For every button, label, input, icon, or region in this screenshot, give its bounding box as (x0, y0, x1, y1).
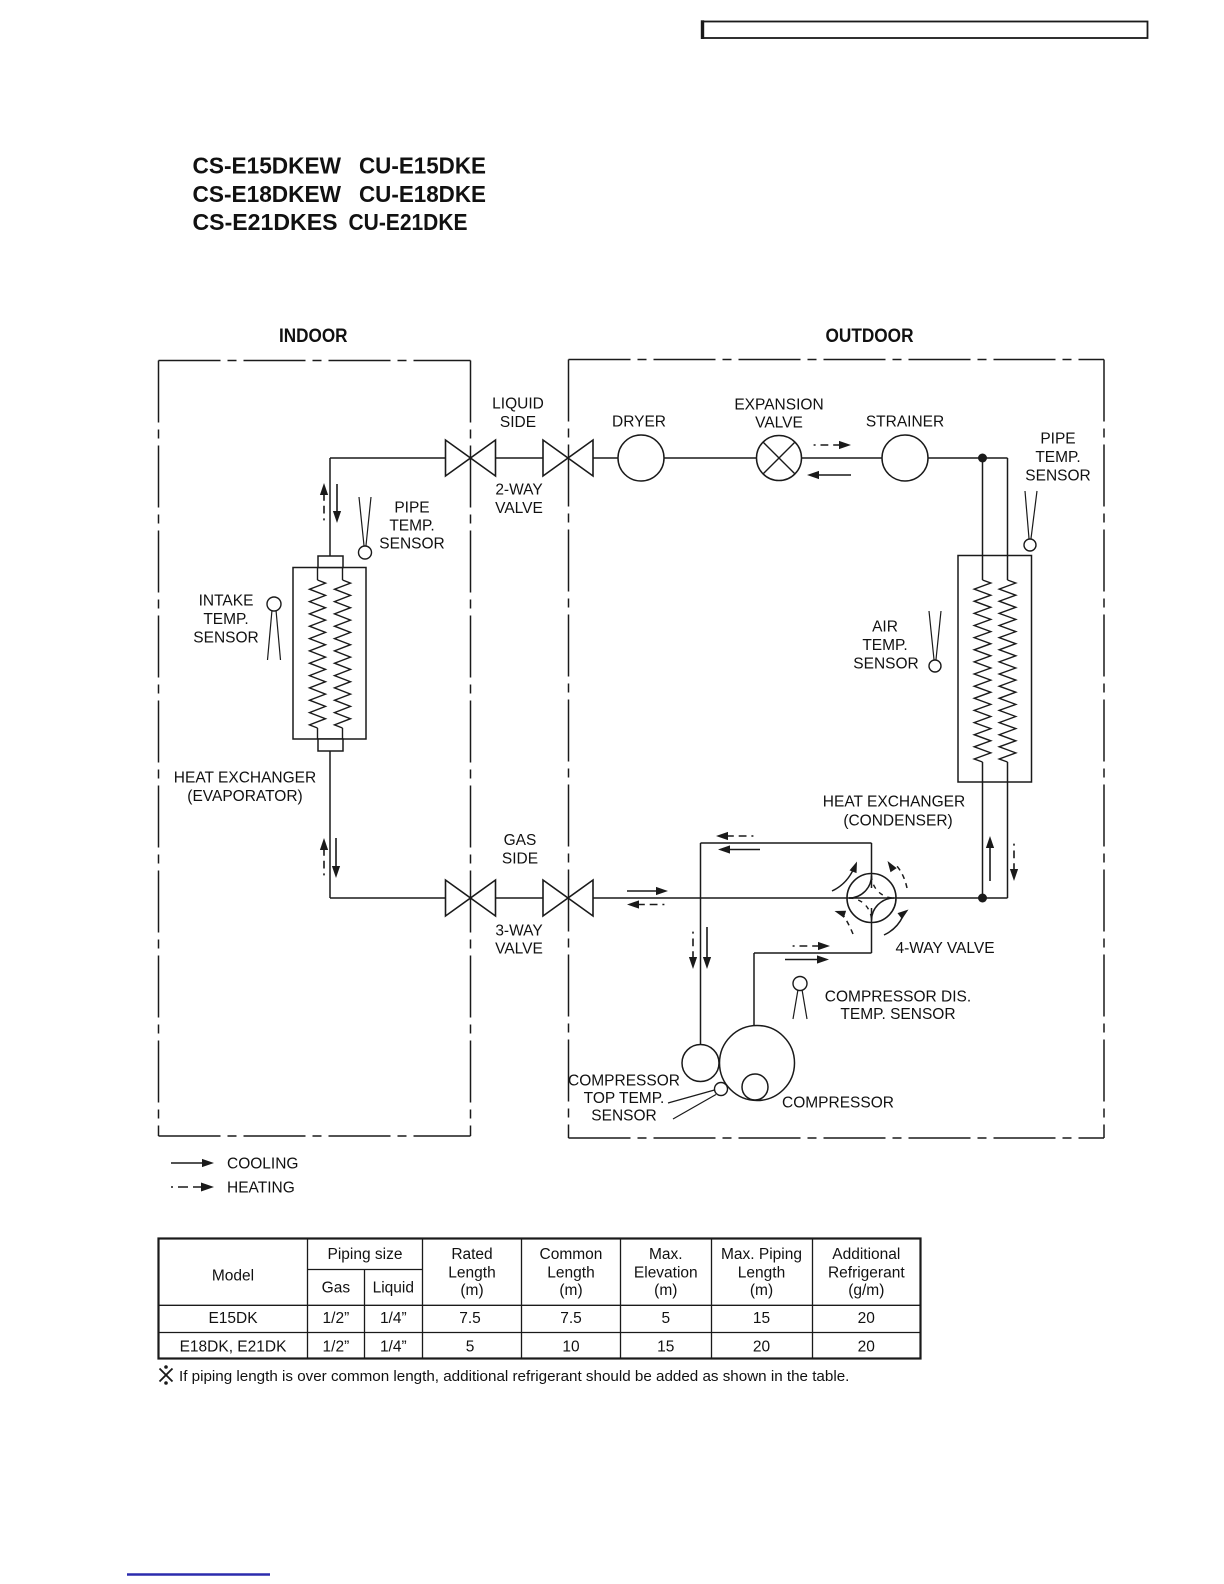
svg-text:Refrigerant: Refrigerant (828, 1265, 905, 1282)
svg-text:COMPRESSOR: COMPRESSOR (782, 1095, 894, 1112)
svg-text:OUTDOOR: OUTDOOR (826, 326, 914, 347)
svg-text:VALVE: VALVE (495, 941, 543, 958)
svg-text:(m): (m) (559, 1282, 582, 1299)
svg-text:HEAT EXCHANGER: HEAT EXCHANGER (823, 794, 965, 811)
svg-text:SENSOR: SENSOR (591, 1108, 656, 1125)
svg-text:CS-E18DKEW: CS-E18DKEW (193, 181, 342, 207)
svg-text:CU-E21DKE: CU-E21DKE (349, 209, 468, 235)
svg-text:Max.: Max. (649, 1246, 683, 1263)
svg-text:Additional: Additional (832, 1246, 900, 1263)
svg-text:Length: Length (547, 1265, 594, 1282)
svg-text:20: 20 (858, 1338, 876, 1355)
svg-text:TEMP.: TEMP. (1035, 449, 1080, 466)
svg-text:(EVAPORATOR): (EVAPORATOR) (187, 788, 302, 805)
svg-text:1/2”: 1/2” (323, 1338, 350, 1355)
svg-text:GAS: GAS (504, 832, 537, 849)
svg-text:4-WAY VALVE: 4-WAY VALVE (895, 940, 994, 957)
svg-text:TEMP.: TEMP. (389, 518, 434, 535)
svg-text:CU-E15DKE: CU-E15DKE (359, 153, 486, 179)
svg-text:CS-E15DKEW: CS-E15DKEW (193, 153, 342, 179)
svg-text:HEAT EXCHANGER: HEAT EXCHANGER (174, 770, 316, 787)
svg-text:Liquid: Liquid (373, 1280, 414, 1297)
svg-text:2-WAY: 2-WAY (495, 482, 542, 499)
svg-text:AIR: AIR (872, 619, 898, 636)
svg-text:Model: Model (212, 1268, 254, 1285)
svg-text:SENSOR: SENSOR (379, 536, 444, 553)
svg-text:COOLING: COOLING (227, 1156, 298, 1173)
svg-text:E18DK, E21DK: E18DK, E21DK (180, 1338, 287, 1355)
svg-text:STRAINER: STRAINER (866, 414, 944, 431)
svg-text:Length: Length (738, 1265, 785, 1282)
svg-text:EXPANSION: EXPANSION (734, 397, 823, 414)
svg-text:3-WAY: 3-WAY (495, 923, 542, 940)
svg-text:1/4”: 1/4” (380, 1310, 407, 1327)
svg-text:LIQUID: LIQUID (492, 396, 544, 413)
svg-text:E15DK: E15DK (208, 1310, 258, 1327)
svg-text:VALVE: VALVE (755, 415, 803, 432)
svg-text:Piping size: Piping size (328, 1246, 403, 1263)
svg-text:CU-E18DKE: CU-E18DKE (359, 181, 486, 207)
svg-text:5: 5 (466, 1338, 475, 1355)
svg-text:If piping length is over commo: If piping length is over common length, … (179, 1368, 849, 1385)
svg-text:INDOOR: INDOOR (279, 326, 348, 347)
svg-text:PIPE: PIPE (394, 500, 429, 517)
svg-text:(m): (m) (750, 1282, 773, 1299)
svg-text:7.5: 7.5 (459, 1310, 481, 1327)
svg-text:15: 15 (657, 1338, 674, 1355)
svg-text:20: 20 (858, 1310, 876, 1327)
svg-text:COMPRESSOR: COMPRESSOR (568, 1073, 680, 1090)
svg-text:SIDE: SIDE (502, 851, 538, 868)
svg-text:PIPE: PIPE (1040, 431, 1075, 448)
svg-text:SIDE: SIDE (500, 414, 536, 431)
svg-text:TOP TEMP.: TOP TEMP. (584, 1090, 665, 1107)
svg-text:TEMP.: TEMP. (862, 637, 907, 654)
svg-text:1/4”: 1/4” (380, 1338, 407, 1355)
svg-text:Elevation: Elevation (634, 1265, 698, 1282)
svg-text:TEMP.: TEMP. (203, 611, 248, 628)
svg-text:INTAKE: INTAKE (199, 593, 254, 610)
svg-text:Gas: Gas (322, 1280, 351, 1297)
svg-text:Rated: Rated (451, 1246, 492, 1263)
svg-text:SENSOR: SENSOR (853, 656, 918, 673)
svg-text:(g/m): (g/m) (848, 1282, 884, 1299)
svg-text:7.5: 7.5 (560, 1310, 582, 1327)
svg-text:15: 15 (753, 1310, 770, 1327)
svg-text:1/2”: 1/2” (323, 1310, 350, 1327)
svg-text:(m): (m) (460, 1282, 483, 1299)
svg-text:SENSOR: SENSOR (1025, 468, 1090, 485)
svg-text:TEMP. SENSOR: TEMP. SENSOR (840, 1006, 955, 1023)
svg-text:CS-E21DKES: CS-E21DKES (193, 209, 338, 235)
svg-text:Length: Length (448, 1265, 495, 1282)
svg-text:10: 10 (562, 1338, 580, 1355)
svg-text:Max. Piping: Max. Piping (721, 1246, 802, 1263)
svg-text:Common: Common (540, 1246, 603, 1263)
svg-text:(CONDENSER): (CONDENSER) (843, 813, 952, 830)
svg-text:VALVE: VALVE (495, 500, 543, 517)
svg-text:20: 20 (753, 1338, 771, 1355)
svg-text:(m): (m) (654, 1282, 677, 1299)
svg-text:HEATING: HEATING (227, 1180, 295, 1197)
svg-text:COMPRESSOR DIS.: COMPRESSOR DIS. (825, 989, 971, 1006)
svg-text:5: 5 (661, 1310, 670, 1327)
svg-text:SENSOR: SENSOR (193, 630, 258, 647)
svg-text:DRYER: DRYER (612, 414, 666, 431)
